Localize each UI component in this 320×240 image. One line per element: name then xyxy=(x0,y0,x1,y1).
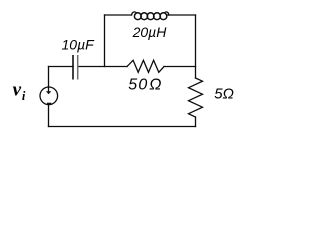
svg-text:50: 50 xyxy=(128,76,148,93)
svg-text:Ω: Ω xyxy=(149,76,161,93)
svg-text:v: v xyxy=(13,80,22,101)
svg-text:i: i xyxy=(22,89,26,103)
svg-text:5Ω: 5Ω xyxy=(214,86,234,103)
svg-text:10µF: 10µF xyxy=(62,36,96,52)
svg-text:20µH: 20µH xyxy=(132,24,168,40)
